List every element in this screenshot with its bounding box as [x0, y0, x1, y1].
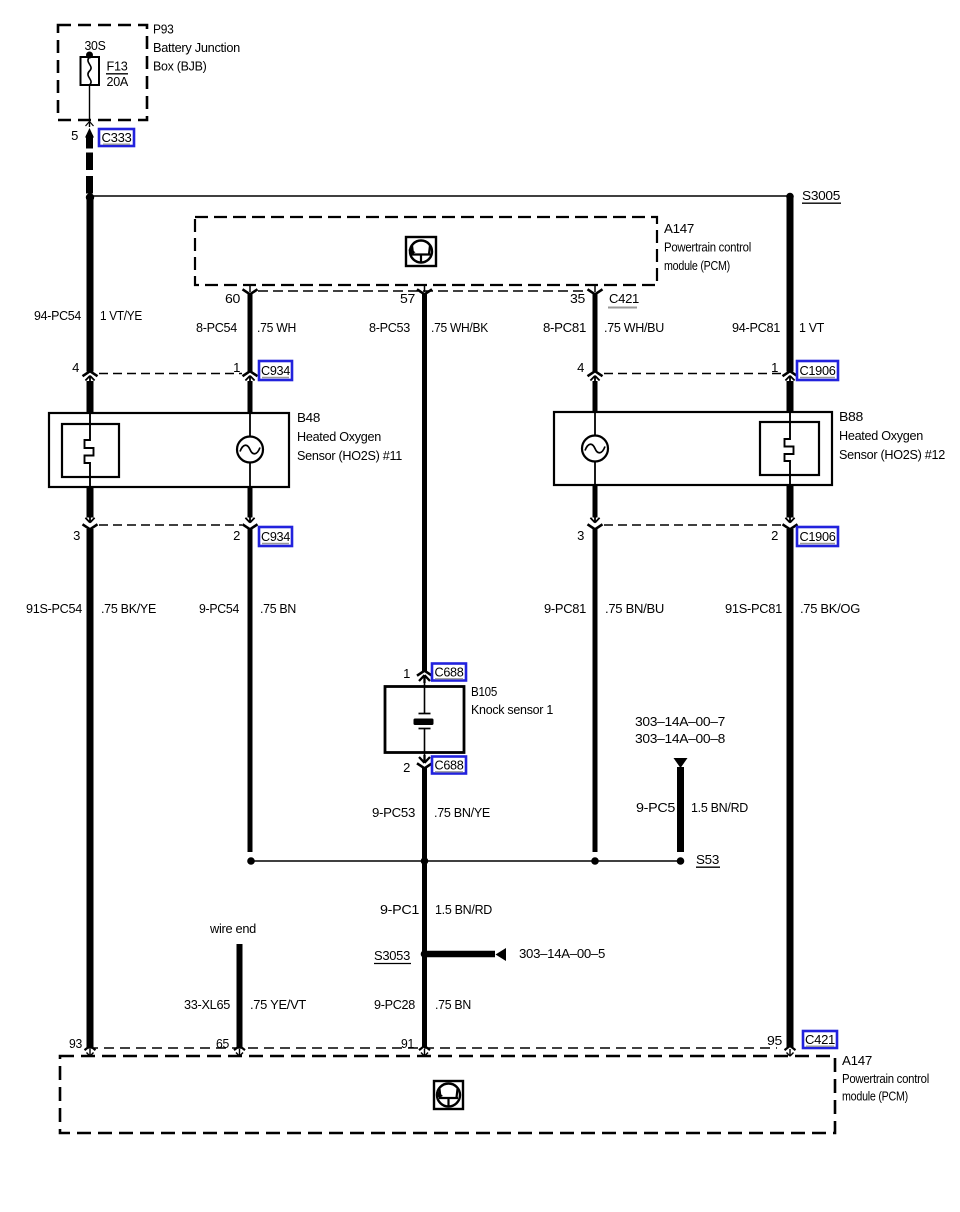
wire .75 BN label 2	[435, 997, 471, 1012]
svg-text:91: 91	[401, 1036, 414, 1051]
wire W1 into B48	[87, 381, 94, 413]
svg-text:2: 2	[403, 760, 410, 775]
pin 1 right	[771, 360, 778, 375]
wire W2 below B48	[248, 487, 253, 518]
svg-text:57: 57	[400, 291, 415, 306]
B88 heater box	[760, 422, 819, 475]
label A147 Powertrain control module (PCM) top	[664, 221, 751, 273]
svg-text:.75 BN/BU: .75 BN/BU	[605, 601, 664, 616]
svg-text:94-PC81: 94-PC81	[732, 320, 780, 335]
svg-text:303–14A–00–8: 303–14A–00–8	[635, 731, 725, 746]
wire W5 right vertical	[787, 196, 794, 372]
pin 93	[69, 1036, 82, 1051]
sensor B88 box	[554, 412, 832, 485]
svg-text:95: 95	[767, 1033, 782, 1048]
svg-text:1 VT/YE: 1 VT/YE	[100, 308, 143, 323]
wire W5 below B88	[787, 485, 794, 518]
svg-text:35: 35	[570, 291, 585, 306]
connector row C934 dashed line	[99, 373, 242, 375]
svg-text:9-PC53: 9-PC53	[372, 805, 415, 820]
wire 9-PC5 label	[636, 800, 675, 815]
svg-text:1: 1	[771, 360, 778, 375]
svg-text:.75 YE/VT: .75 YE/VT	[250, 997, 306, 1012]
wire .75 BN label	[260, 601, 296, 616]
wire .75 BK/YE label	[101, 601, 157, 616]
svg-text:F13: F13	[107, 59, 128, 74]
pin 2 right	[771, 528, 778, 543]
wire 33-XL65 vertical	[237, 944, 243, 1048]
splice S3053 label	[374, 948, 411, 964]
S53 node W3	[421, 857, 429, 865]
connector label C421 top	[608, 291, 639, 308]
svg-text:.75 WH: .75 WH	[257, 320, 296, 335]
wire 94-PC81 label	[732, 320, 780, 335]
wire W3 pin57 vertical	[422, 294, 427, 671]
pin 91 connector symbols	[419, 1046, 430, 1056]
wire 8-PC53 label	[369, 320, 410, 335]
bottom connector dashed line	[88, 1047, 777, 1049]
svg-text:3: 3	[577, 528, 584, 543]
PCM A147 bottom dashed box	[60, 1056, 835, 1133]
wire 1 VT label	[799, 320, 824, 335]
svg-text:Powertrain control: Powertrain control	[842, 1071, 929, 1086]
wire W3 knock to S53	[422, 767, 427, 861]
pin 1 right connector symbols	[783, 371, 798, 382]
pin 3 right connector symbols	[588, 516, 603, 529]
connector row2 C934 dashed line	[99, 524, 242, 526]
svg-text:B48: B48	[297, 410, 320, 425]
pin 65 connector symbols	[234, 1046, 245, 1056]
wire W2 pin60 vertical	[248, 294, 253, 372]
wire fuse to connector C333	[86, 85, 94, 127]
connector label C934 upper	[259, 361, 292, 380]
connector C421 dashed line	[258, 290, 588, 292]
wire 33-XL65 label	[184, 997, 230, 1012]
svg-text:Box (BJB): Box (BJB)	[153, 59, 207, 74]
takeout arrow down	[674, 758, 688, 768]
svg-text:303–14A–00–5: 303–14A–00–5	[519, 946, 605, 961]
wire W1 battery feed vertical	[87, 198, 94, 372]
connector label C1906 upper	[797, 361, 838, 380]
svg-text:Powertrain control: Powertrain control	[664, 240, 751, 255]
pin 65	[216, 1036, 229, 1051]
wire W5 into B88	[787, 381, 794, 412]
pin 2 connector symbols	[243, 516, 258, 529]
S53 node W2	[247, 857, 255, 865]
pin 1 connector symbols	[243, 371, 258, 382]
PCM icon bottom	[434, 1081, 463, 1109]
connector row2 C1906 dashed line	[604, 524, 782, 526]
wire 91S-PC81 label	[725, 601, 782, 616]
svg-text:S53: S53	[696, 852, 719, 867]
svg-text:P93: P93	[153, 22, 174, 37]
svg-text:9-PC54: 9-PC54	[199, 601, 239, 616]
label B105 Knock sensor 1	[471, 684, 553, 717]
wire 9-PC54 label	[199, 601, 239, 616]
svg-text:.75 BN: .75 BN	[260, 601, 296, 616]
wire W4 pin35 vertical	[593, 294, 598, 372]
svg-text:B105: B105	[471, 684, 497, 699]
svg-text:65: 65	[216, 1036, 229, 1051]
junction node at S3005 tap	[86, 193, 94, 201]
wire .75 YE/VT label	[250, 997, 306, 1012]
pin 95	[767, 1033, 782, 1048]
pin 5	[71, 128, 78, 143]
pin 57	[400, 291, 415, 306]
svg-text:wire end: wire end	[209, 921, 256, 936]
svg-text:C333: C333	[102, 131, 132, 145]
label B48 Heated Oxygen Sensor (HO2S) #11	[297, 410, 402, 463]
label 303-14A-00-7	[635, 714, 725, 729]
wire 9-PC81 label	[544, 601, 586, 616]
svg-text:.75 BK/OG: .75 BK/OG	[800, 601, 860, 616]
svg-text:9-PC81: 9-PC81	[544, 601, 586, 616]
svg-text:.75 WH/BK: .75 WH/BK	[431, 320, 489, 335]
label 303-14A-00-5	[519, 946, 605, 961]
svg-text:S3053: S3053	[374, 948, 410, 963]
wire 9-PC1 label	[380, 902, 419, 917]
fuse value F13 / 20A	[106, 59, 129, 90]
svg-text:8-PC54: 8-PC54	[196, 320, 237, 335]
S53 node W6	[677, 857, 685, 865]
connector row C1906 dashed line	[604, 373, 782, 375]
knock sensor element	[414, 686, 434, 752]
pin 91	[401, 1036, 414, 1051]
svg-text:C1906: C1906	[800, 364, 836, 378]
wire 8-PC81 label	[543, 320, 586, 335]
svg-text:C934: C934	[261, 364, 290, 378]
wire .75 WH/BU label	[604, 320, 664, 335]
pin 4 right	[577, 360, 584, 375]
B48 AC source	[237, 413, 263, 487]
connector label C688 lower	[432, 757, 466, 774]
svg-text:93: 93	[69, 1036, 82, 1051]
pin 57 stub and connector	[417, 285, 432, 294]
svg-text:2: 2	[771, 528, 778, 543]
label P93 Battery Junction Box (BJB)	[153, 22, 240, 74]
pin 4 left	[72, 360, 79, 375]
wire W4 below B88	[593, 485, 598, 518]
splice S53 wire	[251, 860, 681, 862]
svg-text:module (PCM): module (PCM)	[842, 1089, 908, 1104]
pin 3 connector symbols	[83, 516, 98, 529]
svg-text:1 VT: 1 VT	[799, 320, 824, 335]
svg-text:60: 60	[225, 291, 240, 306]
svg-text:C421: C421	[805, 1033, 835, 1047]
wire W1 below B48	[87, 487, 94, 518]
svg-text:33-XL65: 33-XL65	[184, 997, 230, 1012]
pin 2 right connector symbols	[783, 516, 798, 529]
svg-text:9-PC1: 9-PC1	[380, 902, 419, 917]
wire 91S-PC54 label	[26, 601, 82, 616]
wire .75 WH/BK label	[431, 320, 489, 335]
wire W4 into B88	[593, 381, 598, 412]
svg-text:5: 5	[71, 128, 78, 143]
wire W5 down to PCM	[787, 529, 794, 1048]
svg-text:S3005: S3005	[802, 188, 840, 203]
svg-text:Battery Junction: Battery Junction	[153, 40, 240, 55]
svg-text:A147: A147	[842, 1053, 872, 1068]
svg-text:A147: A147	[664, 221, 694, 236]
wire 9-PC5 vertical	[677, 767, 684, 852]
svg-text:94-PC54: 94-PC54	[34, 308, 81, 323]
svg-text:8-PC81: 8-PC81	[543, 320, 586, 335]
knock pin2 connector symbols	[417, 752, 432, 768]
wire S3005 horizontal	[90, 193, 794, 201]
pin 93 connector symbols	[85, 1046, 96, 1056]
svg-text:Heated Oxygen: Heated Oxygen	[297, 429, 381, 444]
svg-text:1: 1	[233, 360, 240, 375]
svg-text:C688: C688	[435, 666, 464, 680]
sensor B48 box	[49, 413, 289, 487]
svg-text:1.5 BN/RD: 1.5 BN/RD	[691, 800, 748, 815]
svg-text:C1906: C1906	[800, 530, 836, 544]
pin 60	[225, 291, 240, 306]
svg-text:.75 BK/YE: .75 BK/YE	[101, 601, 157, 616]
svg-text:20A: 20A	[107, 74, 129, 89]
S53 node W4	[591, 857, 599, 865]
B88 AC source	[582, 412, 608, 485]
svg-text:91S-PC81: 91S-PC81	[725, 601, 782, 616]
connector label C333	[99, 129, 134, 146]
svg-text:Sensor (HO2S) #11: Sensor (HO2S) #11	[297, 448, 402, 463]
svg-text:3: 3	[73, 528, 80, 543]
wire 9-PC28 label	[374, 997, 415, 1012]
svg-text:module (PCM): module (PCM)	[664, 258, 730, 273]
pin 1 knock	[403, 666, 410, 681]
pin 95 connector symbols	[785, 1046, 796, 1056]
PCM A147 top dashed box	[195, 217, 657, 285]
pin 3 right	[577, 528, 584, 543]
svg-text:C934: C934	[261, 530, 290, 544]
connector label C688 upper	[432, 664, 466, 681]
S3053 node	[421, 950, 429, 958]
svg-text:.75 BN/YE: .75 BN/YE	[434, 805, 491, 820]
label 303-14A-00-8	[635, 731, 725, 746]
svg-text:4: 4	[72, 360, 79, 375]
wire W2 down to S53	[248, 529, 253, 852]
knock pin1 connector symbols	[417, 671, 432, 687]
wire 9-PC53 label	[372, 805, 415, 820]
pin 2 left	[233, 528, 240, 543]
B48 heater element	[85, 413, 94, 487]
label wire end	[209, 921, 256, 936]
pin 3 left	[73, 528, 80, 543]
svg-text:B88: B88	[839, 409, 863, 424]
svg-text:Sensor (HO2S) #12: Sensor (HO2S) #12	[839, 447, 945, 462]
svg-text:303–14A–00–7: 303–14A–00–7	[635, 714, 725, 729]
svg-text:Knock sensor 1: Knock sensor 1	[471, 702, 553, 717]
svg-text:91S-PC54: 91S-PC54	[26, 601, 82, 616]
wire dashed thick from C333 down	[86, 153, 93, 196]
S3053 takeout wire	[427, 948, 506, 961]
connector label C1906 lower	[797, 527, 838, 546]
svg-text:8-PC53: 8-PC53	[369, 320, 410, 335]
wire .75 BN/YE label	[434, 805, 491, 820]
pin 2 knock	[403, 760, 410, 775]
svg-text:C688: C688	[435, 759, 464, 773]
wire 8-PC54 label	[196, 320, 237, 335]
wire W3 S53 to S3053	[422, 861, 427, 1048]
wire .75 WH label	[257, 320, 296, 335]
connector label C421 blue	[803, 1031, 837, 1048]
svg-text:1.5 BN/RD: 1.5 BN/RD	[435, 902, 492, 917]
pin 4 connector symbols	[83, 371, 98, 382]
label B88 Heated Oxygen Sensor (HO2S) #12	[839, 409, 945, 462]
connector C333 arrow	[85, 128, 94, 149]
wire .75 BK/OG label	[800, 601, 860, 616]
svg-text:.75 BN: .75 BN	[435, 997, 471, 1012]
wire W2 into B48	[248, 381, 253, 413]
B88 heater element	[785, 412, 794, 485]
splice S53 label	[696, 852, 720, 867]
label A147 Powertrain control module (PCM) bottom	[842, 1053, 929, 1104]
wire W4 down to S53	[593, 529, 598, 852]
svg-text:1: 1	[403, 666, 410, 681]
wire 1.5 BN/RD label 2	[435, 902, 492, 917]
pin 60 stub and connector	[243, 285, 258, 294]
wire 94-PC54 label	[34, 308, 81, 323]
splice S3005 label	[802, 188, 841, 203]
PCM icon top	[406, 237, 436, 266]
svg-text:9-PC28: 9-PC28	[374, 997, 415, 1012]
svg-text:4: 4	[577, 360, 584, 375]
connector label C934 lower	[259, 527, 292, 546]
pin 35 stub and connector	[588, 285, 603, 294]
svg-text:C421: C421	[609, 291, 639, 306]
svg-text:30S: 30S	[85, 38, 107, 53]
battery junction box P93 dashed box	[58, 25, 147, 120]
pin 4 right connector symbols	[588, 371, 603, 382]
pin 1 left	[233, 360, 240, 375]
svg-text:2: 2	[233, 528, 240, 543]
wire W1 long down to PCM	[87, 529, 94, 1048]
wire 1.5 BN/RD label	[691, 800, 748, 815]
wire 1 VT/YE label	[100, 308, 143, 323]
fuse F13 20A	[81, 52, 100, 86]
svg-text:Heated Oxygen: Heated Oxygen	[839, 428, 923, 443]
knock sensor B105 box	[385, 687, 464, 753]
pin 35	[570, 291, 585, 306]
B48 heater box	[62, 424, 119, 477]
svg-text:.75 WH/BU: .75 WH/BU	[604, 320, 664, 335]
svg-text:9-PC5: 9-PC5	[636, 800, 675, 815]
wire .75 BN/BU label	[605, 601, 664, 616]
label 30S	[85, 38, 107, 53]
